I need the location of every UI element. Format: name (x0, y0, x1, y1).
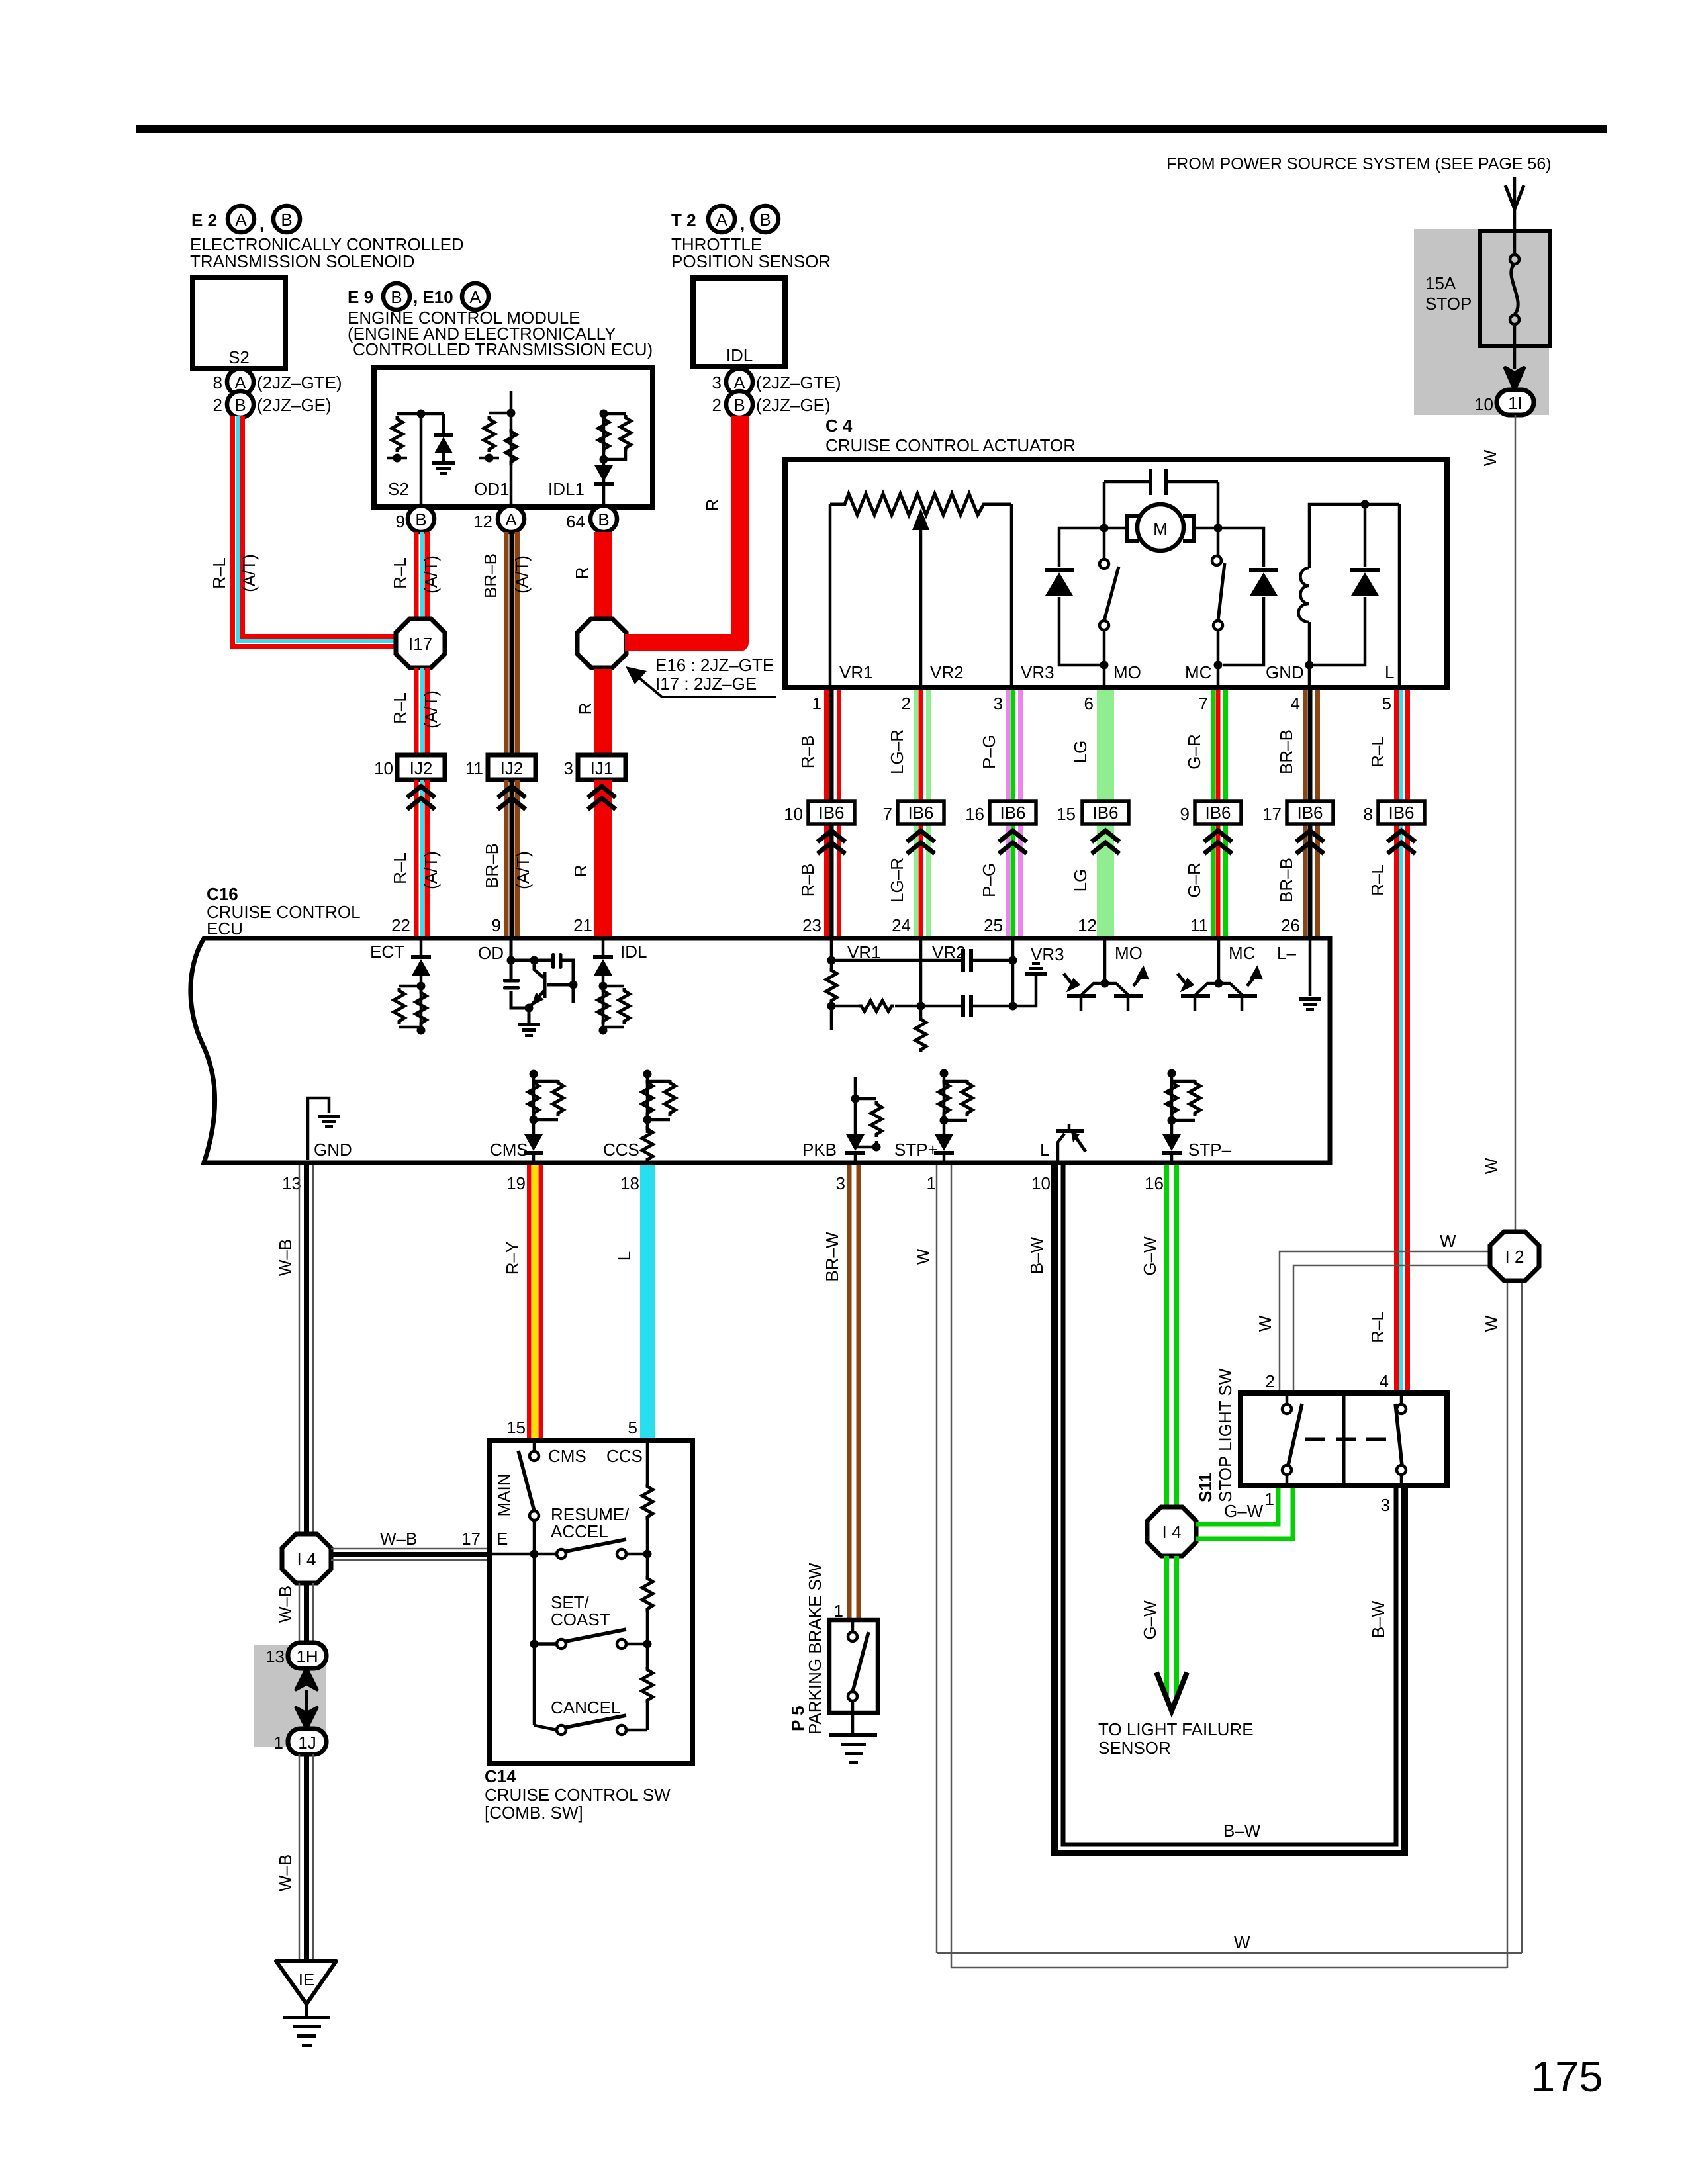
svg-text:R: R (571, 865, 590, 878)
inverted ground at VR3 (1025, 962, 1047, 976)
svg-text:13: 13 (282, 1173, 301, 1193)
diode (ECM S2, cathode up) (442, 414, 445, 434)
wire W C16 pin1 down, right along bottom, up to I2 (937, 1165, 1522, 1968)
svg-text:12: 12 (473, 512, 492, 531)
resistor CCS right (665, 1080, 675, 1116)
MAIN switch blade (518, 1451, 534, 1511)
svg-text:VR1: VR1 (839, 662, 873, 682)
resistor STP+ left (939, 1080, 949, 1116)
svg-text:6: 6 (1084, 694, 1094, 713)
svg-text:M: M (1153, 519, 1168, 539)
svg-text:R: R (572, 567, 592, 580)
MC driver (1217, 940, 1221, 983)
CANCEL switch (557, 1725, 566, 1735)
diode (left, cathode up) (1059, 528, 1104, 665)
wire W S11 pin2 up and right to I2 (1280, 1251, 1490, 1390)
svg-text:IB6: IB6 (908, 803, 933, 823)
svg-text:MO: MO (1115, 943, 1143, 963)
connector E10 pin A circle (462, 283, 489, 310)
svg-text:W: W (1481, 1315, 1501, 1332)
left switch (1282, 1404, 1291, 1414)
svg-text:,: , (259, 214, 264, 234)
svg-text:P–G: P–G (979, 735, 999, 769)
svg-text:B: B (281, 210, 292, 230)
S11 stop light switch box (1241, 1393, 1447, 1486)
svg-text:S2: S2 (228, 347, 250, 367)
svg-text:IJ2: IJ2 (410, 758, 433, 778)
svg-text:MO: MO (1113, 662, 1141, 682)
L output symbol (1058, 1134, 1064, 1163)
svg-text:R–L: R–L (209, 557, 229, 589)
connector T2 pin B circle (752, 206, 778, 232)
svg-text:B: B (234, 395, 246, 415)
resistor STP- left (1166, 1080, 1177, 1116)
svg-text:CRUISE CONTROL SW: CRUISE CONTROL SW (485, 1785, 671, 1805)
VR3 lead (1010, 504, 1013, 685)
svg-text:I 2: I 2 (1505, 1247, 1524, 1267)
svg-text:12: 12 (1078, 915, 1097, 935)
svg-text:(2JZ–GTE): (2JZ–GTE) (756, 373, 841, 392)
PKB output (855, 1077, 876, 1163)
svg-text:1J: 1J (298, 1733, 316, 1752)
dashed link (1305, 1438, 1387, 1441)
svg-text:22: 22 (391, 915, 410, 935)
svg-text:IB6: IB6 (1000, 803, 1025, 823)
RESUME/ACCEL switch (557, 1549, 566, 1559)
svg-text:1: 1 (927, 1173, 936, 1193)
svg-text:L: L (1040, 1140, 1049, 1160)
svg-text:(A/T): (A/T) (421, 555, 441, 594)
svg-text:IDL: IDL (726, 345, 753, 365)
connector 1H oval (288, 1643, 326, 1668)
svg-text:3: 3 (564, 758, 573, 778)
svg-text:BR–W: BR–W (822, 1232, 842, 1282)
svg-text:4: 4 (1380, 1371, 1389, 1391)
svg-text:ECT: ECT (370, 942, 404, 962)
svg-text:10: 10 (1031, 1173, 1051, 1193)
svg-text:CCS: CCS (603, 1140, 639, 1160)
svg-text:B: B (415, 510, 426, 529)
svg-text:S11: S11 (1196, 1473, 1215, 1502)
svg-text:R–L: R–L (1368, 864, 1387, 896)
svg-text:9: 9 (492, 915, 501, 935)
ground symbol P5 (829, 1733, 877, 1737)
transistor (OD) (534, 960, 543, 978)
node (507, 409, 516, 418)
svg-text:B–W: B–W (1027, 1236, 1047, 1274)
ground connector IE triangle (276, 1961, 336, 2004)
wire R-Y C16 pin19 to C14 pin15 (527, 1165, 532, 1441)
svg-text:L: L (614, 1251, 634, 1261)
L- input with ground (1309, 940, 1312, 996)
switch MC (1212, 556, 1221, 565)
svg-text:15: 15 (506, 1418, 526, 1437)
svg-text:R–L: R–L (1368, 1311, 1387, 1343)
svg-text:2: 2 (213, 395, 222, 415)
wire W-B I4 to C14 (horizontal) (331, 1549, 489, 1560)
inductor coil on GND lead (1308, 622, 1311, 665)
wire R-L I17 to IJ2 (414, 668, 419, 755)
capacitor series (OD) (551, 953, 555, 969)
svg-text:BR–B: BR–B (1276, 729, 1296, 774)
svg-text:LG–R: LG–R (887, 729, 907, 774)
svg-text:24: 24 (892, 915, 911, 935)
right switch (1397, 1404, 1406, 1414)
svg-text:3: 3 (994, 694, 1003, 713)
svg-text:G–W: G–W (1140, 1236, 1160, 1276)
svg-text:CANCEL: CANCEL (551, 1698, 620, 1717)
svg-text:I17: I17 (408, 634, 432, 654)
svg-text:A: A (235, 210, 247, 230)
VR1 node network (831, 940, 1013, 1030)
svg-text:T 2: T 2 (671, 210, 696, 230)
svg-text:A: A (505, 510, 517, 529)
wire below IE (305, 2004, 308, 2017)
svg-text:8: 8 (1364, 804, 1373, 824)
svg-text:W–B: W–B (380, 1529, 417, 1549)
node (600, 455, 608, 464)
CMS output (534, 1074, 558, 1163)
VR1 lead (829, 504, 832, 685)
svg-text:[COMB. SW]: [COMB. SW] (485, 1803, 583, 1823)
svg-text:26: 26 (1281, 915, 1300, 935)
svg-text:R–L: R–L (1368, 736, 1387, 768)
svg-text:R: R (702, 499, 722, 512)
svg-text:VR3: VR3 (1031, 944, 1064, 964)
fuse element (1513, 233, 1517, 254)
svg-text:1: 1 (812, 694, 821, 713)
svg-text:BR–B: BR–B (481, 553, 500, 598)
svg-text:2: 2 (902, 694, 911, 713)
capacitor across motor (1104, 480, 1218, 484)
svg-text:16: 16 (965, 804, 984, 824)
svg-text:1: 1 (1265, 1489, 1274, 1509)
resistor VR2 tail (915, 1017, 926, 1052)
svg-text:7: 7 (1199, 694, 1208, 713)
svg-text:LG: LG (1070, 741, 1090, 764)
svg-text:FROM POWER SOURCE SYSTEM (SEE: FROM POWER SOURCE SYSTEM (SEE PAGE 56) (1166, 155, 1552, 173)
svg-text:R–B: R–B (798, 735, 818, 769)
resistor PKB parallel (871, 1101, 882, 1137)
junction I2 octagon (1490, 1232, 1539, 1281)
svg-text:GND: GND (1266, 662, 1304, 682)
svg-text:VR3: VR3 (1021, 662, 1055, 682)
svg-text:W: W (1255, 1315, 1275, 1332)
capacitor series bottom (961, 995, 965, 1017)
CMS contact (533, 1443, 536, 1451)
wire R octagon to IJ1 (594, 669, 612, 755)
svg-text:(A/T): (A/T) (239, 554, 259, 592)
solid arrow into 1I (1505, 368, 1524, 389)
svg-text:E 9: E 9 (348, 287, 373, 307)
ECM box (374, 367, 653, 507)
component S2 solenoid box (193, 277, 285, 369)
wire W-B 1J down to IE (299, 1754, 313, 1961)
wire R (thick red) T2 pin B down to corner (drawn with ECM section elbow) (731, 416, 749, 436)
svg-text:7: 7 (883, 804, 892, 824)
svg-text:STOP: STOP (1425, 294, 1472, 314)
OD input: wire (511, 940, 573, 1003)
resistor (IDL1 right) (620, 415, 631, 451)
terminal dot (393, 454, 402, 463)
svg-text:3: 3 (1381, 1495, 1390, 1515)
motor M (1137, 504, 1184, 551)
open arrowhead to light failure sensor (1156, 1672, 1187, 1711)
ECM S2 circuit: node (417, 410, 426, 418)
svg-text:C16: C16 (207, 884, 238, 904)
connector E9 pin B circle (383, 283, 410, 310)
arrow link 1H to 1J (305, 1690, 308, 1715)
svg-text:W: W (1480, 449, 1500, 466)
svg-text:W: W (1234, 1933, 1250, 1952)
svg-text:W–B: W–B (275, 1586, 295, 1623)
svg-text:5: 5 (628, 1418, 637, 1437)
svg-text:CONTROLLED TRANSMISSION ECU): CONTROLLED TRANSMISSION ECU) (353, 340, 653, 359)
ECM OD1 circuit: wire (489, 391, 511, 505)
svg-text:C14: C14 (485, 1766, 516, 1786)
svg-text:PKB: PKB (802, 1140, 837, 1160)
svg-text:R–L: R–L (390, 692, 410, 724)
svg-text:BR–B: BR–B (482, 843, 502, 888)
svg-text:W: W (1481, 1158, 1501, 1174)
svg-text:15: 15 (1056, 804, 1076, 824)
svg-text:4: 4 (1291, 694, 1300, 713)
resistor (OD1 left) (484, 416, 494, 452)
wire R IJ1 to C16 pin21 (594, 780, 612, 938)
svg-text:18: 18 (620, 1173, 639, 1193)
svg-text:W: W (1440, 1231, 1456, 1251)
chevron arrow below IJ2 (498, 786, 526, 809)
svg-text:B: B (733, 395, 745, 415)
svg-text:(2JZ–GE): (2JZ–GE) (257, 395, 332, 415)
connector E2 pin A circle (228, 206, 254, 232)
GND output: wire to chassis (308, 1098, 329, 1160)
svg-text:11: 11 (1190, 915, 1208, 935)
svg-text:W: W (913, 1248, 933, 1265)
svg-text:16: 16 (1145, 1173, 1164, 1193)
svg-text:5: 5 (1382, 694, 1391, 713)
diode ECT (cathode up) (411, 955, 431, 976)
svg-text:I 4: I 4 (1162, 1522, 1182, 1542)
svg-text:A: A (716, 210, 727, 230)
svg-text:10: 10 (784, 804, 803, 824)
resistor STP- right (1190, 1080, 1200, 1116)
svg-text:MC: MC (1185, 662, 1211, 682)
wire R-L from E2 pin B down and right to I17 (red/lightblue/red) (238, 416, 396, 641)
svg-text:E 2: E 2 (191, 210, 217, 230)
svg-text:(A/T): (A/T) (512, 555, 532, 594)
svg-text:21: 21 (573, 915, 592, 935)
svg-text:VR2: VR2 (930, 662, 964, 682)
chevron arrow (1204, 831, 1232, 854)
svg-text:IB6: IB6 (1205, 803, 1231, 823)
svg-text:W–B: W–B (275, 1239, 295, 1276)
divider (1342, 1393, 1346, 1486)
svg-text:B: B (759, 210, 771, 230)
connector T2 pin A circle (708, 206, 735, 232)
svg-text:VR1: VR1 (847, 942, 881, 962)
STP- output (1172, 1073, 1195, 1163)
wire R-L IJ2 to C16 pin22 (414, 780, 419, 938)
switch contacts (851, 1622, 855, 1632)
IDL sensor box (693, 278, 785, 367)
shield gray box around 1H/1J (254, 1645, 326, 1747)
resistor (OD1 series) (506, 429, 516, 465)
SET/COAST switch (557, 1639, 566, 1649)
chevron arrow (999, 831, 1027, 854)
resistor STP+ right (962, 1080, 972, 1116)
svg-text:CMS: CMS (548, 1446, 586, 1466)
chevron arrow (1092, 831, 1119, 854)
svg-text:IDL: IDL (620, 942, 647, 962)
svg-text:TO LIGHT FAILURE: TO LIGHT FAILURE (1098, 1719, 1254, 1739)
svg-text:B: B (598, 510, 609, 529)
svg-text:9: 9 (1180, 804, 1190, 824)
L lead (1398, 504, 1401, 685)
wire L (light blue) C16 pin18 to C14 pin5 (640, 1165, 655, 1441)
svg-text:B: B (391, 287, 402, 307)
ECM IDL1 circuit: wire (604, 414, 626, 505)
svg-text:175: 175 (1531, 2052, 1603, 2101)
svg-text:23: 23 (802, 915, 821, 935)
svg-text:G–W: G–W (1224, 1501, 1264, 1521)
MO driver (1103, 940, 1107, 983)
svg-text:IB6: IB6 (1092, 803, 1118, 823)
svg-text:64: 64 (566, 512, 585, 531)
diode (right of MC, cathode up) (1218, 528, 1264, 665)
svg-text:IE: IE (299, 1970, 315, 1989)
svg-text:8: 8 (213, 373, 222, 392)
terminal dot (485, 454, 494, 463)
svg-text:R: R (575, 703, 595, 715)
svg-text:13: 13 (265, 1647, 285, 1666)
svg-text:E16 : 2JZ–GTE: E16 : 2JZ–GTE (655, 655, 774, 675)
svg-text:CRUISE CONTROL ACTUATOR: CRUISE CONTROL ACTUATOR (825, 435, 1076, 455)
svg-text:LG: LG (1070, 869, 1090, 892)
capacitor shunt (OD) (511, 960, 529, 1008)
svg-text:S2: S2 (388, 479, 409, 499)
junction I17 octagon (396, 619, 445, 668)
svg-text:CCS: CCS (606, 1446, 643, 1466)
svg-text:I 4: I 4 (297, 1549, 316, 1569)
svg-text:, E10: , E10 (413, 287, 453, 307)
connector E2 pin B circle (273, 206, 300, 232)
CCS output (647, 1074, 670, 1163)
svg-text:2: 2 (712, 395, 722, 415)
svg-text:3: 3 (836, 1173, 845, 1193)
svg-text:MAIN: MAIN (494, 1474, 514, 1517)
svg-text:STOP LIGHT SW: STOP LIGHT SW (1215, 1368, 1235, 1502)
wire R-L ECM pin9 to I17 (414, 532, 419, 619)
svg-text:IJ2: IJ2 (500, 758, 524, 778)
wire (397, 414, 444, 505)
shield gray box around fuse (1414, 229, 1549, 415)
svg-text:(2JZ–GTE): (2JZ–GTE) (257, 373, 342, 392)
resistor CMS left (528, 1080, 539, 1116)
GND lead (1308, 665, 1311, 685)
svg-text:11: 11 (465, 758, 483, 778)
svg-text:10: 10 (1474, 394, 1493, 414)
svg-text:CMS: CMS (490, 1140, 528, 1160)
resistor CCS bottom (642, 1126, 653, 1162)
resistor horizontal between VR1-VR2 (859, 1001, 894, 1011)
connector 1J oval (288, 1729, 326, 1754)
connector 1I oval (1497, 390, 1534, 415)
C16 ECU box with torn left edge (191, 938, 1330, 1163)
resistor CCS left (642, 1080, 653, 1116)
svg-text:GND: GND (314, 1140, 352, 1160)
fuse 15A STOP box (1480, 231, 1550, 346)
right branch node (1217, 482, 1220, 556)
svg-text:R–B: R–B (798, 864, 818, 897)
svg-text:IDL1: IDL1 (548, 479, 585, 499)
E bus wire (492, 1520, 557, 1730)
svg-text:10: 10 (374, 758, 393, 778)
chevron arrow (907, 831, 935, 854)
diode (IDL1, cathode down) (594, 465, 614, 486)
wire R (thick red) ECM pin64 to octagon (594, 532, 612, 617)
svg-text:17: 17 (1262, 804, 1282, 824)
svg-text:IJ1: IJ1 (590, 758, 614, 778)
svg-text:2: 2 (1266, 1371, 1275, 1391)
svg-text:G–W: G–W (1140, 1600, 1160, 1640)
svg-text:SENSOR: SENSOR (1098, 1738, 1171, 1758)
IDL input: wire (602, 940, 605, 956)
resistor IDL left (598, 988, 608, 1024)
svg-text:PARKING BRAKE SW: PARKING BRAKE SW (805, 1563, 825, 1735)
svg-text:15A: 15A (1425, 273, 1456, 293)
svg-text:1I: 1I (1508, 393, 1523, 413)
junction I4 octagon (282, 1534, 331, 1583)
svg-text:C 4: C 4 (825, 416, 853, 435)
chevron arrow (818, 831, 845, 854)
svg-text:25: 25 (984, 915, 1003, 935)
svg-text:9: 9 (396, 512, 405, 531)
svg-text:B–W: B–W (1223, 1821, 1261, 1841)
svg-text:(A/T): (A/T) (421, 690, 441, 729)
junction octagon E16/I17 (unlabeled) (577, 619, 626, 668)
svg-text:IB6: IB6 (1297, 803, 1323, 823)
chevron arrow (1296, 831, 1324, 854)
resistor CMS right (553, 1080, 563, 1116)
resistor ECT right (416, 990, 426, 1026)
node (600, 410, 608, 418)
junction I4 octagon (right) (1147, 1507, 1196, 1556)
svg-text:TRANSMISSION SOLENOID: TRANSMISSION SOLENOID (190, 251, 415, 271)
svg-text:L–: L– (1277, 943, 1296, 963)
resistor VR1 vertical (826, 968, 837, 1003)
wire G-W I4 down to light failure sensor arrow (1164, 1556, 1169, 1696)
resistor (ECM S2 pull-up) (392, 416, 402, 452)
svg-text:R–L: R–L (390, 557, 410, 589)
svg-text:STP+: STP+ (894, 1140, 938, 1160)
svg-text:1H: 1H (296, 1647, 318, 1666)
P5 parking brake switch box (829, 1620, 878, 1713)
svg-text:1: 1 (274, 1733, 283, 1752)
svg-text:W–B: W–B (275, 1854, 295, 1891)
wire W-B I4 down to 1H (299, 1583, 313, 1644)
svg-text:P–G: P–G (979, 863, 999, 897)
pin stubs inside S11 (1287, 1395, 1401, 1484)
resistor (IDL1 main) (598, 416, 609, 452)
capacitor series top (VR2-VR3) (961, 949, 965, 972)
ground (OD emitter) (518, 1023, 540, 1037)
motor leads (1104, 527, 1218, 530)
svg-text:IB6: IB6 (818, 803, 844, 823)
resistor IDL right (619, 988, 630, 1024)
top rule bar (136, 125, 1607, 133)
svg-text:R–Y: R–Y (502, 1242, 522, 1275)
